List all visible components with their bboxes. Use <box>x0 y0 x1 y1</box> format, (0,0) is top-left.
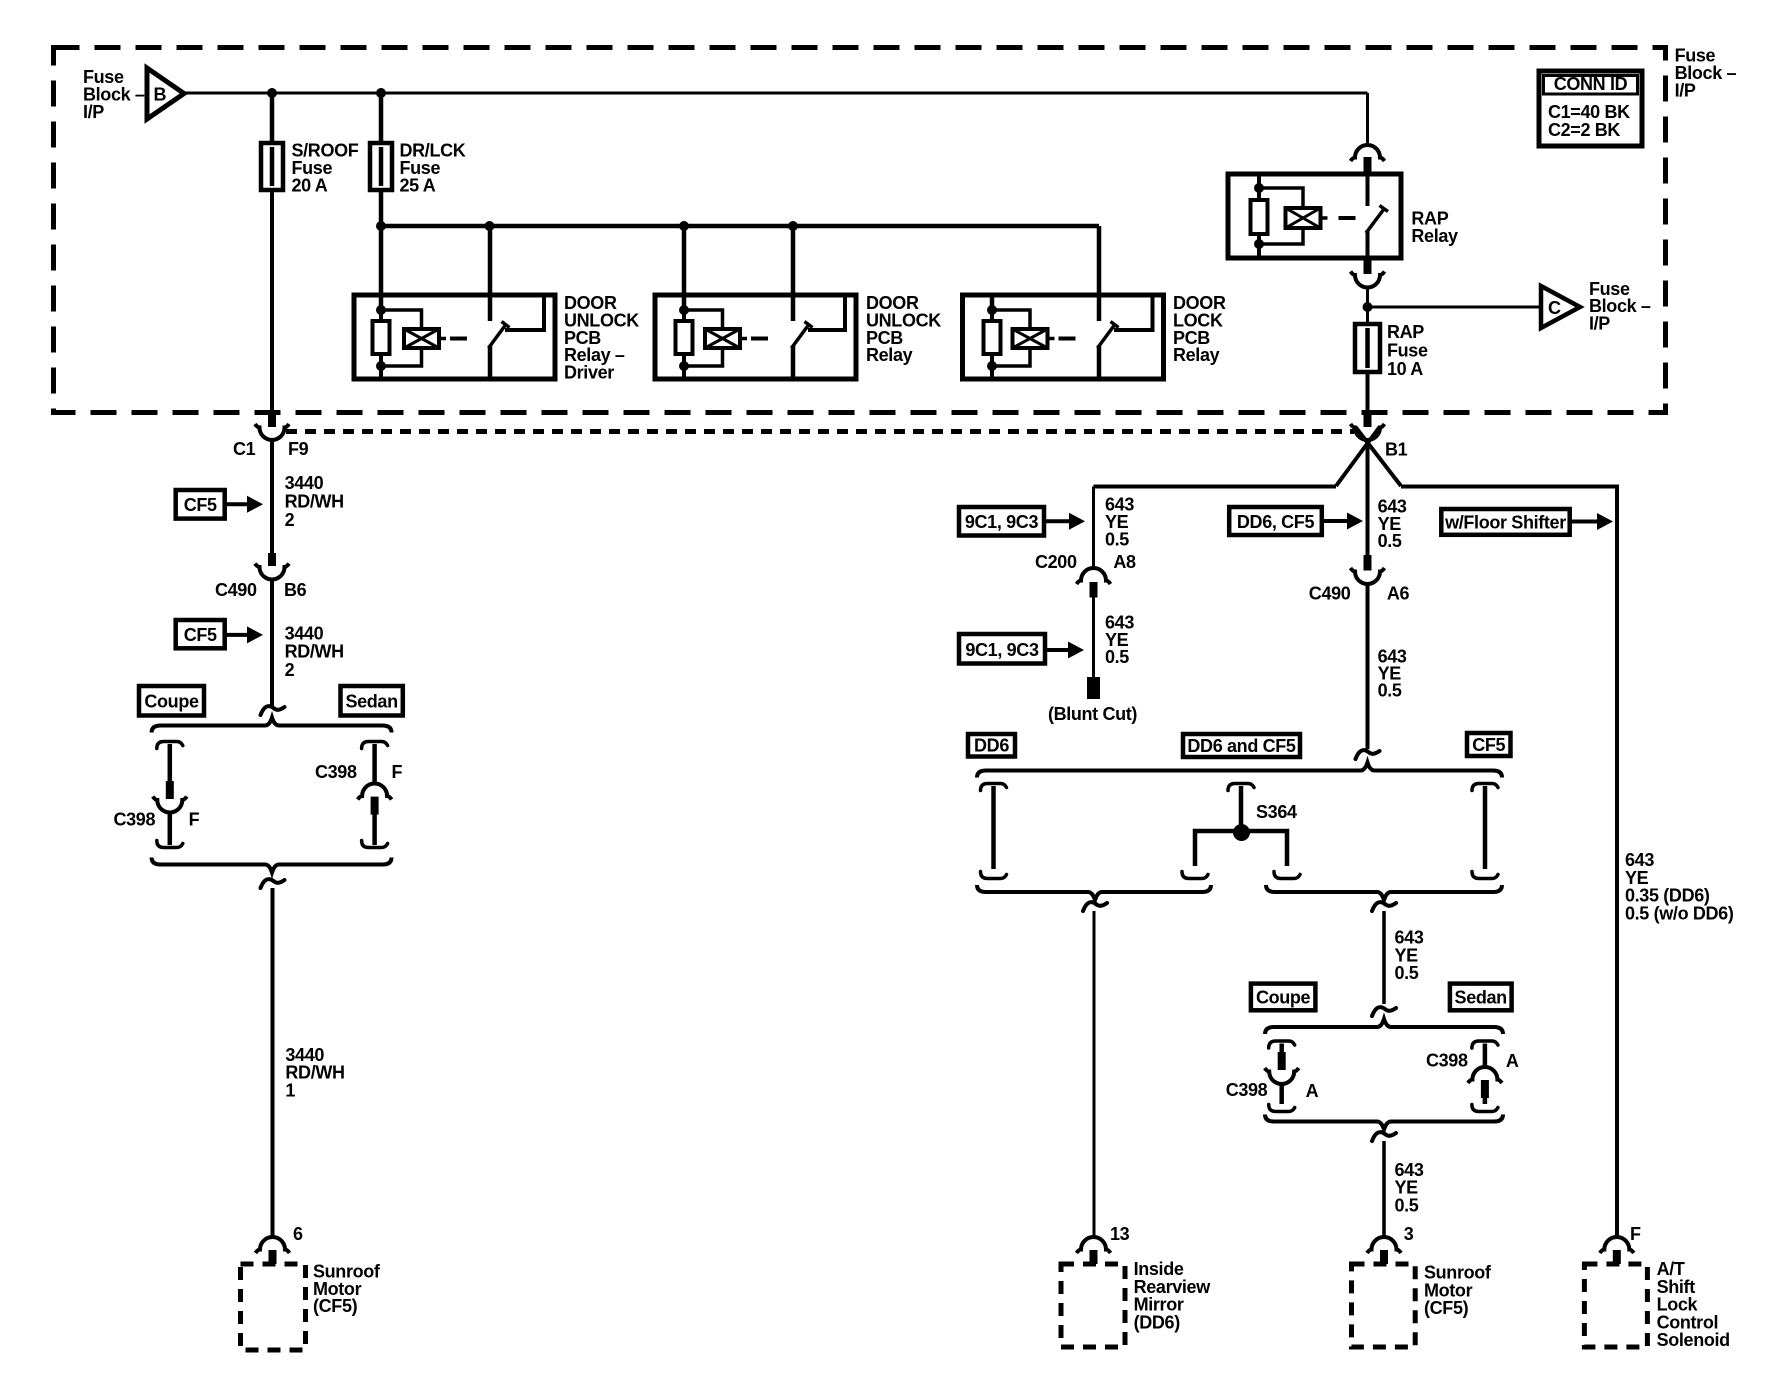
wire K3 door lock coil to case <box>990 366 994 379</box>
switch K2 door unlock contact blade <box>792 325 809 348</box>
label CF5 option box upper <box>176 490 225 519</box>
wire CF5 branch <box>1472 784 1498 791</box>
wire 643 YE to sunroof motor <box>1382 1141 1386 1236</box>
svg-text:Coupe: Coupe <box>144 692 199 712</box>
svg-text:Fuse: Fuse <box>1387 341 1428 361</box>
wire break mark below DD6 merge <box>1083 902 1107 911</box>
svg-text:10 A: 10 A <box>1387 359 1423 379</box>
wire break mark below CF5 merge <box>1372 902 1396 911</box>
wire break mark above middle split <box>1356 750 1380 759</box>
blunt cut wire end <box>1087 677 1100 699</box>
node relay bus junction at DR/LCK <box>376 221 386 231</box>
sunroof motor CF5 box right <box>1352 1264 1416 1347</box>
svg-text:DD6 and CF5: DD6 and CF5 <box>1187 736 1296 756</box>
arrow 9C1 9C3 upper <box>1044 519 1071 523</box>
svg-text:Relay: Relay <box>1173 345 1220 365</box>
svg-text:0.5: 0.5 <box>1395 1195 1419 1215</box>
node junction S/ROOF branch <box>267 88 277 98</box>
label 9C1 9C3 box upper <box>959 507 1044 536</box>
label w/Floor Shifter box <box>1441 509 1569 535</box>
svg-text:0.5 (w/o DD6): 0.5 (w/o DD6) <box>1625 903 1734 923</box>
svg-text:F: F <box>1630 1224 1641 1244</box>
svg-text:CF5: CF5 <box>1472 735 1505 755</box>
svg-text:C200: C200 <box>1035 552 1077 572</box>
svg-text:(Blunt Cut): (Blunt Cut) <box>1048 704 1137 724</box>
wire RAP coil feed <box>1257 176 1261 188</box>
wire to fuse block C <box>1368 306 1542 309</box>
svg-text:6: 6 <box>293 1224 303 1244</box>
svg-text:25 A: 25 A <box>400 175 436 195</box>
switch RAP contact blade <box>1366 209 1384 233</box>
svg-text:C398: C398 <box>1426 1051 1468 1071</box>
connector C398 F sedan <box>358 784 392 800</box>
svg-text:3440: 3440 <box>285 623 324 643</box>
resistor K2 door unlock coil suppression <box>682 310 686 321</box>
wire RAP switch feed <box>1366 174 1370 206</box>
inside rearview mirror DD6 box <box>1061 1264 1125 1347</box>
brace left options merge <box>152 858 392 873</box>
label Coupe option box right <box>1251 984 1316 1011</box>
svg-text:C1=40 BK: C1=40 BK <box>1548 102 1630 122</box>
svg-text:Sedan: Sedan <box>1455 988 1507 1008</box>
svg-text:Relay: Relay <box>866 345 913 365</box>
wire DD6 branch <box>981 784 1007 791</box>
label Coupe option box left <box>139 686 204 716</box>
brace CF5 merge right <box>1266 885 1502 900</box>
svg-text:w/Floor Shifter: w/Floor Shifter <box>1444 513 1566 533</box>
svg-text:A: A <box>1506 1051 1519 1071</box>
svg-text:RD/WH: RD/WH <box>285 642 344 662</box>
wire sedan branch lower <box>372 815 377 846</box>
wire RAP switch output <box>1366 230 1370 258</box>
label CF5 option box right <box>1467 733 1511 756</box>
svg-text:C2=2 BK: C2=2 BK <box>1548 120 1620 140</box>
svg-text:C398: C398 <box>1226 1080 1268 1100</box>
wire 3440 RD/WH 1 to sunroof motor <box>271 888 275 1236</box>
svg-text:I/P: I/P <box>1589 314 1610 334</box>
sunroof motor CF5 box left <box>241 1264 306 1350</box>
node K2 door unlock coil bottom junction <box>679 361 689 371</box>
brace middle options split <box>977 763 1502 778</box>
wire break mark above left split <box>261 706 285 715</box>
svg-text:20 A: 20 A <box>292 175 328 195</box>
svg-text:A8: A8 <box>1113 552 1136 572</box>
svg-text:0.5: 0.5 <box>1105 647 1129 667</box>
wire DR/LCK fuse to relay bus <box>379 190 384 226</box>
wire S364 feed <box>1228 784 1254 791</box>
svg-text:3440: 3440 <box>285 473 324 493</box>
fuse DR/LCK 25A <box>379 143 384 190</box>
label Sedan option box right <box>1450 984 1512 1011</box>
svg-text:C398: C398 <box>315 762 357 782</box>
wire RAP fuse to B1 <box>1366 372 1370 411</box>
svg-text:I/P: I/P <box>83 102 104 122</box>
wire RAP coil to case <box>1257 244 1261 258</box>
brace left options split <box>152 718 392 733</box>
label DD6 CF5 box <box>1229 507 1322 535</box>
wire break mark above right split <box>1372 1007 1396 1016</box>
node junction relay2 switch feed <box>788 221 798 231</box>
wire K3 door lock coil feed <box>990 297 995 310</box>
wire K1 door unlock driver NO contact loop <box>505 294 544 330</box>
wire S364 right leg <box>1241 831 1287 866</box>
wire 3440 RD/WH 2 upper <box>270 440 274 553</box>
wire sedan branch right lower <box>1483 1098 1488 1104</box>
relay K3 door lock box <box>963 295 1164 379</box>
wire C200 to blunt cut <box>1092 598 1095 678</box>
svg-text:S364: S364 <box>1256 802 1297 822</box>
wire main feed bus from B <box>184 92 1368 95</box>
wire K3 door lock switch feed <box>1097 226 1102 321</box>
arrow DD6 CF5 <box>1322 519 1349 523</box>
wire to C200 <box>1092 487 1095 569</box>
connector B1 pin <box>1364 411 1372 427</box>
wire B1 split right diagonal <box>1356 427 1402 486</box>
connector triangle B fuse block feed <box>147 68 184 119</box>
svg-text:Solenoid: Solenoid <box>1657 1330 1730 1350</box>
svg-text:C1: C1 <box>233 439 256 459</box>
label CF5 option box lower <box>176 620 225 648</box>
wire sedan branch right upper <box>1472 1041 1498 1048</box>
svg-text:(DD6): (DD6) <box>1134 1312 1181 1332</box>
switch K3 door lock contact blade <box>1098 325 1115 348</box>
wire K2 door unlock coil armature link <box>740 337 747 341</box>
svg-text:A: A <box>1306 1081 1319 1101</box>
node junction DR/LCK branch <box>376 88 386 98</box>
arrow 9C1 9C3 lower <box>1045 648 1070 652</box>
label DD6 option box <box>968 734 1015 757</box>
connector shift lock pin F <box>1600 1237 1634 1253</box>
node splice S364 <box>1233 824 1250 841</box>
wire feed to RAP relay <box>1366 93 1369 146</box>
brace DD6 merge left <box>977 885 1211 900</box>
connector inline RAP relay lower <box>1364 258 1372 274</box>
relay RAP box <box>1228 174 1401 258</box>
svg-text:0.5: 0.5 <box>1378 681 1402 701</box>
relay K1 door unlock driver box <box>354 295 555 379</box>
fuse S/ROOF 20A <box>270 143 275 190</box>
wire B1 branch left horizontal <box>1094 485 1337 489</box>
svg-text:DD6: DD6 <box>974 736 1009 756</box>
relay coil K1 door unlock driver <box>381 310 422 329</box>
wire coupe branch lower <box>168 813 173 846</box>
node K3 door lock coil bottom junction <box>987 361 997 371</box>
wire K2 door unlock switch output <box>791 346 796 380</box>
relay coil K3 door lock <box>992 310 1030 329</box>
svg-text:1: 1 <box>285 1080 295 1100</box>
svg-text:F9: F9 <box>288 439 309 459</box>
svg-text:0.5: 0.5 <box>1378 531 1402 551</box>
wire K3 door lock coil armature link <box>1048 337 1055 341</box>
svg-text:F: F <box>392 762 403 782</box>
svg-text:A6: A6 <box>1387 584 1410 604</box>
svg-text:B6: B6 <box>284 580 307 600</box>
connector C398 F coupe <box>166 781 174 799</box>
wire sedan branch upper <box>362 742 388 749</box>
wire RAP coil armature link <box>1321 216 1328 220</box>
connector C490 pin B6 <box>268 553 276 566</box>
connector inside rearview mirror pin 13 <box>1077 1237 1111 1253</box>
svg-text:13: 13 <box>1110 1224 1130 1244</box>
svg-text:CF5: CF5 <box>184 625 217 645</box>
arrow w/Floor Shifter <box>1570 520 1599 524</box>
svg-text:CF5: CF5 <box>184 495 217 515</box>
switch K1 door unlock driver contact blade <box>489 325 506 348</box>
node K3 door lock coil top junction <box>987 305 997 315</box>
fuse RAP 10A <box>1365 324 1370 372</box>
svg-text:C490: C490 <box>215 580 257 600</box>
arrow CF5 upper <box>225 502 249 506</box>
wire K1 door unlock driver switch output <box>488 346 493 380</box>
wire coupe branch right lower <box>1279 1084 1284 1104</box>
connector C1 pin F9 <box>268 411 276 427</box>
wire S/ROOF fuse feed <box>270 93 275 143</box>
svg-text:B1: B1 <box>1385 439 1408 459</box>
svg-text:C: C <box>1548 298 1561 318</box>
svg-text:9C1, 9C3: 9C1, 9C3 <box>965 512 1039 532</box>
wire DR/LCK fuse feed <box>379 93 384 143</box>
svg-text:(CF5): (CF5) <box>313 1296 358 1316</box>
connector C398 A sedan <box>1468 1067 1502 1083</box>
wire break mark below right merge <box>1372 1132 1396 1141</box>
wire K2 door unlock switch feed <box>791 226 796 321</box>
relay K2 door unlock box <box>655 295 856 379</box>
node junction relay2 coil feed <box>679 221 689 231</box>
resistor K1 door unlock driver coil suppression <box>379 310 383 321</box>
label DD6 and CF5 option box <box>1183 734 1300 757</box>
node RAP coil bottom junction <box>1254 239 1264 249</box>
svg-text:2: 2 <box>285 660 295 680</box>
wire B1 split left diagonal <box>1336 427 1380 486</box>
wire K2 door unlock coil feed <box>682 226 687 310</box>
svg-text:B: B <box>154 85 167 105</box>
node RAP coil top junction <box>1254 183 1264 193</box>
brace right options merge <box>1265 1115 1503 1130</box>
wire K2 door unlock coil to case <box>682 366 686 379</box>
svg-text:C398: C398 <box>114 809 156 829</box>
svg-text:2: 2 <box>285 510 295 530</box>
wire K1 door unlock driver switch feed <box>488 226 493 321</box>
fuse block I/P dashed boundary box <box>54 48 1666 413</box>
wire K3 door lock switch output <box>1097 346 1102 380</box>
wire CF5 branch to coupe sedan split <box>1382 911 1386 1004</box>
svg-text:Coupe: Coupe <box>1256 988 1311 1008</box>
svg-text:0.5: 0.5 <box>1395 963 1419 983</box>
wire RAP relay to fuse <box>1366 287 1369 324</box>
wire coupe branch upper <box>157 742 183 749</box>
resistor RAP coil suppression <box>1257 188 1261 200</box>
wire S364 left leg <box>1195 831 1241 866</box>
wire 3440 RD/WH 2 lower <box>270 580 274 707</box>
node K1 door unlock driver coil top junction <box>376 305 386 315</box>
resistor K3 door lock coil suppression <box>990 310 994 321</box>
connector triangle C fuse block <box>1541 286 1580 328</box>
relay coil K2 door unlock <box>684 310 723 329</box>
wire K1 door unlock driver coil feed <box>379 226 384 310</box>
connector C200 pin A8 <box>1077 568 1111 584</box>
wire break mark below left merge <box>261 879 285 888</box>
svg-text:DD6, CF5: DD6, CF5 <box>1237 512 1315 532</box>
svg-text:C490: C490 <box>1309 584 1351 604</box>
svg-text:Sedan: Sedan <box>345 692 397 712</box>
wire relay feed bus <box>381 224 1099 229</box>
connector inline RAP relay upper <box>1351 145 1385 161</box>
wire 643 YE to DD6 split <box>1366 585 1370 750</box>
label Sedan option box left <box>341 686 403 716</box>
svg-text:F: F <box>189 809 200 829</box>
wire K1 door unlock driver coil to case <box>379 366 383 379</box>
connector sunroof motor pin 6 <box>256 1237 290 1253</box>
wire coupe branch right upper <box>1269 1041 1295 1048</box>
wire K1 door unlock driver coil armature link <box>439 337 446 341</box>
wire to inside rearview mirror <box>1093 911 1096 1236</box>
svg-text:Relay: Relay <box>1411 226 1458 246</box>
svg-text:RAP: RAP <box>1387 322 1424 342</box>
node K1 door unlock driver coil bottom junction <box>376 361 386 371</box>
dotted boundary line <box>286 429 1354 434</box>
svg-text:9C1, 9C3: 9C1, 9C3 <box>965 640 1039 660</box>
wire B1 center down <box>1366 440 1370 555</box>
wire S/ROOF fuse to C1 <box>270 190 274 412</box>
connector sunroof motor pin 3 <box>1367 1237 1401 1253</box>
svg-text:0.5: 0.5 <box>1105 529 1129 549</box>
node junction relay1 switch feed <box>485 221 495 231</box>
svg-text:Driver: Driver <box>564 363 614 383</box>
svg-text:3: 3 <box>1404 1224 1414 1244</box>
label 9C1 9C3 box lower <box>959 634 1045 664</box>
relay coil RAP <box>1259 188 1303 208</box>
connector C490 pin A6 <box>1364 555 1372 571</box>
wire B1 branch right horizontal <box>1401 487 1617 1237</box>
node K2 door unlock coil top junction <box>679 305 689 315</box>
svg-text:CONN ID: CONN ID <box>1554 74 1628 94</box>
wire K3 door lock NO contact loop <box>1114 294 1153 330</box>
A/T shift lock control solenoid box <box>1584 1264 1647 1347</box>
table CONN ID box <box>1539 71 1642 146</box>
wire K2 door unlock NO contact loop <box>808 294 845 330</box>
connector C398 A coupe <box>1278 1052 1286 1070</box>
arrow CF5 lower <box>225 633 249 637</box>
svg-text:(CF5): (CF5) <box>1424 1298 1469 1318</box>
brace right options split <box>1265 1019 1503 1034</box>
svg-text:I/P: I/P <box>1675 81 1696 101</box>
svg-text:RD/WH: RD/WH <box>285 492 344 512</box>
node junction to triangle C <box>1363 302 1373 312</box>
